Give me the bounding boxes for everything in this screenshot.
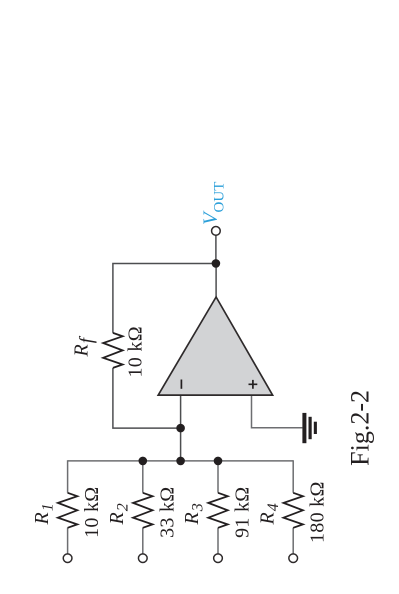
svg-text:10 kΩ: 10 kΩ [125,326,147,377]
svg-text:10 kΩ: 10 kΩ [81,487,103,538]
svg-text:91 kΩ: 91 kΩ [232,487,254,538]
svg-text:180 kΩ: 180 kΩ [307,481,329,543]
svg-text:Fig.2-2: Fig.2-2 [345,390,374,466]
svg-text:33 kΩ: 33 kΩ [156,487,178,538]
